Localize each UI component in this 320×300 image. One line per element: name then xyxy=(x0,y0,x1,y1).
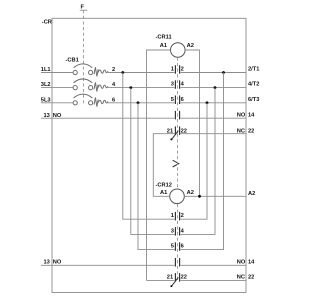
CR11 aux contact 21-22 xyxy=(175,126,179,134)
coil CR12 xyxy=(170,189,185,204)
svg-text:21: 21 xyxy=(167,275,173,281)
CB1 pole 2 xyxy=(73,79,108,92)
CR12 aux contact 21-22 xyxy=(175,273,179,282)
wire node 4 to CR11 contact 3 xyxy=(108,87,175,89)
svg-text:5: 5 xyxy=(171,244,174,250)
junction node 4 tap xyxy=(129,86,132,89)
svg-text:A2: A2 xyxy=(187,43,194,49)
coil CR11 xyxy=(171,43,186,58)
svg-text:-CR: -CR xyxy=(42,19,52,25)
svg-text:A1: A1 xyxy=(160,43,167,49)
mechanical interlock chevron xyxy=(173,160,179,167)
wire CR11 A1 xyxy=(147,50,171,280)
svg-text:1: 1 xyxy=(171,67,174,73)
svg-text:4: 4 xyxy=(181,228,185,234)
wire node 6 to CR11 contact 5 xyxy=(108,102,175,104)
svg-text:4/T2: 4/T2 xyxy=(248,82,259,88)
NC slash CR12 xyxy=(172,277,179,286)
junction T1 xyxy=(222,71,225,74)
CR12 contact 5-6 xyxy=(175,242,179,251)
CB1 pole 3 xyxy=(73,94,108,107)
CB1 pole 1 xyxy=(73,64,108,77)
junction T3 xyxy=(206,101,209,104)
svg-text:22: 22 xyxy=(248,129,254,135)
svg-text:NC: NC xyxy=(237,129,245,135)
wire CR11 A2 xyxy=(185,50,199,196)
svg-text:NO: NO xyxy=(237,260,246,266)
CR12 aux contact 13-14 xyxy=(175,258,179,267)
wire CR12 out6 up to T1 xyxy=(181,73,224,250)
svg-text:3: 3 xyxy=(171,82,174,88)
CR12 linkage dashed xyxy=(177,204,179,280)
wire contact4 to T2 xyxy=(181,87,247,89)
wire contact6 to T3 xyxy=(181,102,247,104)
svg-text:13: 13 xyxy=(44,259,50,265)
svg-text:22: 22 xyxy=(181,275,187,281)
CR11 contact 1-2 xyxy=(175,65,179,74)
svg-text:F: F xyxy=(81,5,85,11)
wire CR11 22 to terminal 22 xyxy=(181,133,247,135)
wire CR12 out4 up to T2 xyxy=(181,88,216,235)
svg-text:22: 22 xyxy=(248,275,254,281)
CB1 trip linkage dashed xyxy=(83,61,85,103)
wire 13 to CR11 aux NO xyxy=(41,117,175,119)
svg-text:NO: NO xyxy=(237,112,246,118)
svg-text:6: 6 xyxy=(181,244,184,250)
wire L3 input xyxy=(41,102,73,104)
svg-text:-CR11: -CR11 xyxy=(156,35,172,41)
svg-text:A1: A1 xyxy=(160,190,167,196)
svg-text:14: 14 xyxy=(248,260,255,266)
CR11 contact 5-6 xyxy=(175,96,179,105)
wire 13 bottom to CR12 aux NO xyxy=(41,264,175,266)
junction T2 xyxy=(214,86,217,89)
svg-text:14: 14 xyxy=(248,112,255,118)
wire CR12 A2 to terminal A2 xyxy=(184,195,246,197)
wire node4 down to CR12 contact3 xyxy=(131,88,175,235)
svg-text:-CR12: -CR12 xyxy=(156,182,172,188)
junction A2 xyxy=(198,195,201,198)
svg-text:6: 6 xyxy=(181,97,184,103)
svg-text:21: 21 xyxy=(167,129,173,135)
wire CR12 out2 up to T3 xyxy=(181,103,208,219)
wire node6 down to CR12 contact5 xyxy=(138,103,175,250)
svg-text:NO: NO xyxy=(53,260,62,266)
svg-text:3: 3 xyxy=(171,228,174,234)
wire aux NO to terminal 14 xyxy=(181,117,247,119)
svg-text:2: 2 xyxy=(181,67,184,73)
junction node 6 tap xyxy=(137,101,140,104)
svg-text:1: 1 xyxy=(171,213,174,219)
CR11 linkage dashed xyxy=(177,57,179,133)
wire node2 down to CR12 contact1 xyxy=(123,73,175,220)
interlock dashed link xyxy=(177,134,179,189)
svg-text:NC: NC xyxy=(237,275,245,281)
wire node 2 to CR11 contact 1 xyxy=(108,72,175,74)
svg-text:2/T1: 2/T1 xyxy=(248,67,259,73)
svg-text:2: 2 xyxy=(181,213,184,219)
svg-text:A2: A2 xyxy=(187,190,194,196)
svg-text:5: 5 xyxy=(171,97,174,103)
wire CR11 A1 to CR12 21 xyxy=(147,279,175,281)
junction node 2 tap xyxy=(121,71,124,74)
wire CR12 22 to terminal 22 xyxy=(181,279,247,281)
enclosure box -CR xyxy=(52,18,246,292)
svg-text:6/T3: 6/T3 xyxy=(248,97,259,103)
svg-text:4: 4 xyxy=(181,82,185,88)
wire contact2 to T1 xyxy=(181,72,247,74)
wire CR11 21 to CR12 A1 xyxy=(153,134,174,197)
NC slash CR11 xyxy=(172,131,179,140)
F terminal tick xyxy=(80,9,87,11)
svg-text:A2: A2 xyxy=(248,191,255,197)
CR12 contact 1-2 xyxy=(175,212,179,221)
CR11 aux contact 13-14 xyxy=(175,111,179,120)
CR11 contact 3-4 xyxy=(175,80,179,89)
wire CR12 aux NO to terminal 14 xyxy=(181,264,247,266)
wire L2 input xyxy=(41,87,73,89)
CR12 contact 3-4 xyxy=(175,227,179,236)
F mechanical dashed link to CB1 xyxy=(83,10,85,61)
wire L1 input xyxy=(41,72,73,74)
svg-text:-CB1: -CB1 xyxy=(66,58,79,64)
